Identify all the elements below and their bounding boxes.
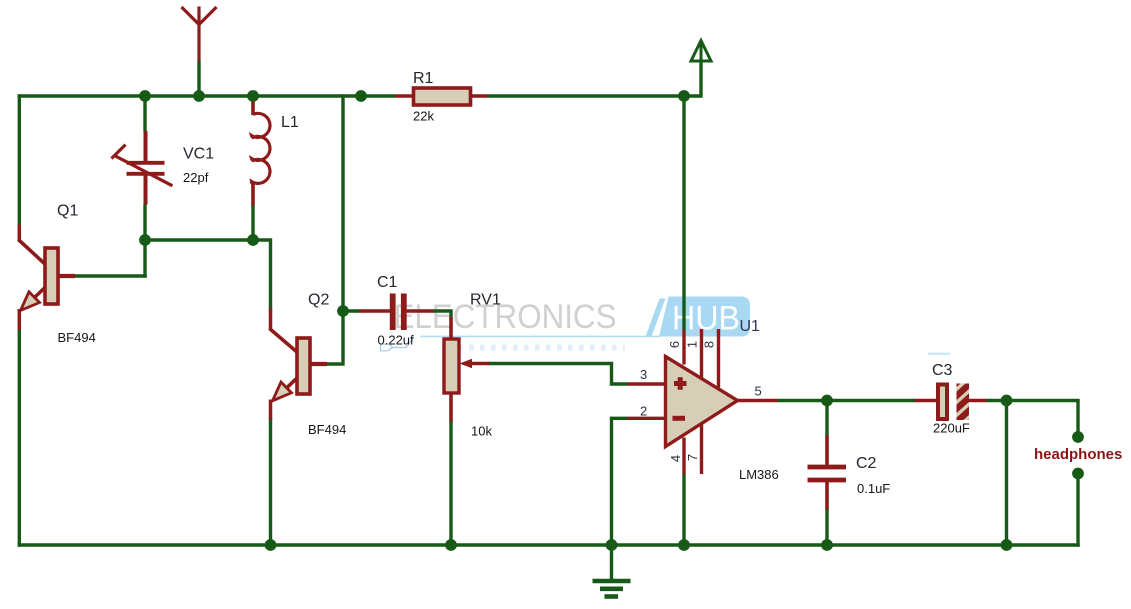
svg-text:Q1: Q1 <box>57 203 78 220</box>
svg-text:5: 5 <box>755 384 762 399</box>
capacitor C2 <box>808 436 847 510</box>
wire VC1 bottom <box>143 204 146 242</box>
wire C1 node vertical <box>341 94 344 312</box>
junction bottom rail / headphones return <box>1001 539 1013 551</box>
junction top rail / U1 pin6 supply <box>678 90 690 102</box>
wire pin4 down <box>682 473 685 547</box>
svg-text:7: 7 <box>685 454 700 461</box>
wire Q1 base <box>74 274 147 277</box>
svg-text:Q2: Q2 <box>308 292 329 309</box>
terminal headphones upper <box>1072 431 1084 443</box>
junction bottom rail / ground <box>606 539 618 551</box>
junction output / C2 top <box>821 395 833 407</box>
wire node row <box>143 238 254 241</box>
wire power corner <box>699 61 702 98</box>
power arrow <box>691 41 711 62</box>
wire C1 right to RV1 <box>433 309 451 319</box>
svg-text:C2: C2 <box>856 455 877 472</box>
svg-text:L1: L1 <box>281 114 299 131</box>
junction VC1 bottom node <box>139 234 151 246</box>
wire C3 to headphones <box>986 399 1079 437</box>
svg-text:8: 8 <box>702 341 717 348</box>
ground <box>593 545 631 597</box>
wire supply to pin6 <box>682 94 685 330</box>
capacitor C1 <box>359 294 434 331</box>
svg-text:22pf: 22pf <box>183 170 209 185</box>
wire pin2 to ground rail <box>612 417 629 547</box>
svg-text:RV1: RV1 <box>470 292 501 309</box>
wire antenna stem <box>197 61 200 98</box>
wire Q2 emitter down <box>269 418 272 547</box>
svg-text:headphones: headphones <box>1034 446 1122 463</box>
wire C2 bottom <box>825 508 828 547</box>
wire output to bottom rail <box>1005 399 1008 547</box>
wire VC1 node down <box>143 240 146 278</box>
svg-text:6: 6 <box>667 341 682 348</box>
wire left rail lower <box>18 329 21 547</box>
junction L1 bottom node <box>247 234 259 246</box>
svg-text:2: 2 <box>640 404 647 419</box>
svg-text:0.1uF: 0.1uF <box>857 481 890 496</box>
wire output pin5 <box>777 399 916 402</box>
wire L1 bottom <box>251 205 254 242</box>
svg-text:LM386: LM386 <box>739 467 779 482</box>
junction bottom rail / RV1 <box>445 539 457 551</box>
watermark ELECTRONICS text <box>394 298 617 336</box>
svg-text:1: 1 <box>685 341 700 348</box>
junction top rail / C1 branch <box>355 90 367 102</box>
wire RV1 wiper to pin3 <box>489 362 629 384</box>
terminal headphones lower <box>1072 468 1084 480</box>
watermark label leader line <box>381 337 951 355</box>
transistor Q1 <box>18 225 75 331</box>
op-amp U1 <box>628 329 778 474</box>
wire bottom rail <box>18 543 1080 546</box>
resistor R1 <box>395 88 488 105</box>
wire top rail left <box>18 94 396 97</box>
svg-text:BF494: BF494 <box>58 330 96 345</box>
svg-text:VC1: VC1 <box>183 146 214 163</box>
wire headphones lower <box>1076 474 1079 547</box>
svg-text:R1: R1 <box>413 70 434 87</box>
wire L1 top <box>251 94 254 103</box>
junction bottom rail / C2 bottom <box>821 539 833 551</box>
junction bottom rail / U1 pin4 <box>678 539 690 551</box>
watermark HUB blue patch <box>420 297 750 338</box>
svg-text:4: 4 <box>668 455 683 462</box>
wire Q2 base up <box>325 310 345 366</box>
wire C1 left <box>341 309 360 312</box>
svg-text:ELECTRONICS: ELECTRONICS <box>394 298 617 336</box>
junction bottom rail / Q2 emitter <box>265 539 277 551</box>
junction top rail / antenna <box>193 90 205 102</box>
svg-text:220uF: 220uF <box>933 421 970 436</box>
svg-text:U1: U1 <box>740 318 761 335</box>
wire top rail right <box>487 94 701 97</box>
wire node to Q2 collector <box>253 238 271 310</box>
svg-text:0.22uf: 0.22uf <box>378 333 415 348</box>
svg-text:22k: 22k <box>413 109 434 124</box>
antenna <box>182 7 217 62</box>
junction top rail / L1 branch <box>247 90 259 102</box>
svg-text:BF494: BF494 <box>308 422 346 437</box>
transistor Q2 <box>270 309 328 421</box>
wire left rail upper <box>18 94 21 226</box>
wire VC1 top <box>143 94 146 132</box>
variable capacitor VC1 <box>112 131 173 205</box>
svg-text:10k: 10k <box>471 424 492 439</box>
wire RV1 bottom down <box>449 421 452 547</box>
junction output / headphones branch <box>1001 395 1013 407</box>
svg-text:3: 3 <box>640 367 647 382</box>
junction C1 / Q2 base node <box>337 305 349 317</box>
svg-text:C1: C1 <box>377 274 398 291</box>
svg-text:C3: C3 <box>932 362 953 379</box>
junction top rail / VC1 branch <box>139 90 151 102</box>
capacitor C3 <box>915 375 987 432</box>
svg-text:HUB: HUB <box>672 300 740 338</box>
wire C2 top <box>825 399 828 437</box>
potentiometer RV1 <box>444 317 490 422</box>
inductor L1 <box>252 101 270 206</box>
